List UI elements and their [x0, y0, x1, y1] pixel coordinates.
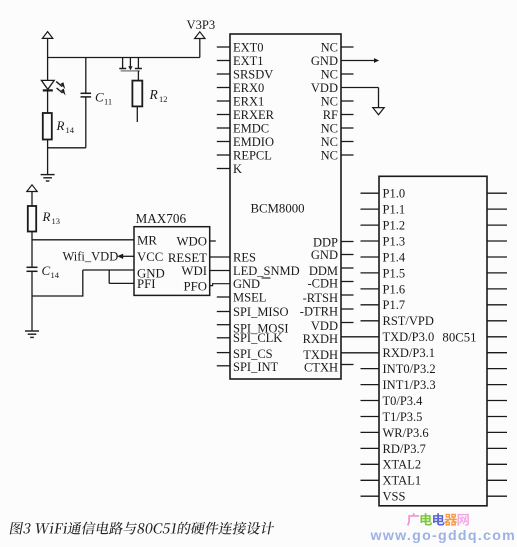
svg-text:RXD/P3.1: RXD/P3.1 [383, 346, 435, 360]
wire stub left [361, 272, 380, 274]
wire stub K [217, 168, 230, 170]
wire stub right [487, 256, 507, 258]
svg-text:80C51: 80C51 [442, 330, 476, 344]
wire stub left [361, 463, 380, 465]
wire [47, 38, 49, 80]
transistor Q1 [122, 58, 124, 69]
capacitor C14 [27, 266, 38, 268]
svg-text:C: C [42, 263, 51, 278]
wire stub [341, 127, 354, 129]
wire stub right [487, 288, 507, 290]
svg-text:EMDIO: EMDIO [233, 135, 274, 149]
svg-text:SRSDV: SRSDV [233, 67, 273, 81]
wire stub [341, 100, 354, 102]
svg-text:VCC: VCC [137, 250, 163, 264]
wire stub right [487, 304, 507, 306]
wire stub [217, 365, 230, 367]
svg-text:PFI: PFI [137, 277, 156, 291]
wire stub SRSDV [217, 73, 230, 75]
ground [41, 174, 55, 176]
svg-text:ERXER: ERXER [233, 108, 275, 122]
ground [25, 330, 39, 332]
wire stub right [487, 479, 507, 481]
wire stub left [361, 400, 380, 402]
svg-text:T1/P3.5: T1/P3.5 [383, 410, 423, 424]
wire stub ERXER [217, 114, 230, 116]
svg-text:WDI: WDI [181, 264, 207, 278]
wire stub left [361, 304, 380, 306]
svg-text:RST/VPD: RST/VPD [383, 314, 434, 328]
wire stub left [361, 240, 380, 242]
wire [341, 294, 354, 296]
svg-text:K: K [233, 162, 242, 176]
wire stub left [361, 479, 380, 481]
svg-text:RD/P3.7: RD/P3.7 [383, 442, 426, 456]
wire [341, 281, 354, 283]
svg-text:NC: NC [321, 94, 338, 108]
svg-text:-CDH: -CDH [307, 277, 338, 291]
svg-text:EXT0: EXT0 [233, 40, 264, 54]
wire stub right [487, 224, 507, 226]
svg-text:EXT1: EXT1 [233, 54, 264, 68]
wire WDI to LED_SNMD [210, 270, 230, 272]
resistor R14 [43, 113, 52, 140]
svg-text:MR: MR [137, 233, 157, 247]
wire [137, 71, 139, 81]
caption 图3 WiFi通信电路与80C51的硬件连接设计 [10, 522, 275, 535]
wire stub left [361, 208, 380, 210]
svg-text:EMDC: EMDC [233, 121, 269, 135]
wire stub [217, 352, 230, 354]
wire stub left [361, 288, 380, 290]
node VCC rail top [48, 57, 200, 59]
resistor R12 [132, 81, 142, 107]
wire junction to C11 [48, 147, 86, 149]
wire stub right [487, 336, 507, 338]
svg-text:VDD: VDD [311, 319, 338, 333]
wire [341, 267, 354, 269]
wire stub left [361, 431, 380, 433]
wire stub left [361, 224, 380, 226]
svg-text:P1.7: P1.7 [383, 298, 406, 312]
wire [31, 232, 33, 268]
op-amp U2 MAX706 box [134, 227, 210, 296]
svg-text:ERX0: ERX0 [233, 81, 264, 95]
svg-text:RES: RES [233, 250, 256, 264]
wire stub EMDIO [217, 141, 230, 143]
svg-text:13: 13 [52, 216, 61, 226]
svg-text:P1.4: P1.4 [383, 250, 406, 264]
wire stub right [487, 320, 507, 322]
svg-text:XTAL1: XTAL1 [383, 474, 422, 488]
wire [341, 254, 354, 256]
wire stub right [487, 495, 507, 497]
wire stub left [361, 256, 380, 258]
chip U1 BCM8000 box [230, 34, 341, 379]
wire stub left [361, 368, 380, 370]
wire stub left [361, 192, 380, 194]
wire [341, 241, 354, 243]
svg-text:LED_SNMD: LED_SNMD [233, 264, 300, 278]
svg-text:SPI_MISO: SPI_MISO [233, 305, 289, 319]
wire stub EXT1 [217, 60, 230, 62]
svg-text:CTXH: CTXH [304, 360, 338, 374]
svg-text:REPCL: REPCL [233, 148, 272, 162]
svg-text:T0/P3.4: T0/P3.4 [383, 394, 424, 408]
svg-text:ERX1: ERX1 [233, 94, 264, 108]
svg-text:14: 14 [66, 125, 75, 135]
wire stub right [487, 368, 507, 370]
svg-text:P1.1: P1.1 [383, 203, 406, 217]
wire [199, 39, 201, 58]
svg-text:GND: GND [311, 248, 338, 262]
wire stub [217, 296, 230, 298]
power arrow [195, 32, 205, 39]
svg-text:P1.5: P1.5 [383, 266, 406, 280]
wire stub ERX0 [217, 87, 230, 89]
svg-text:R: R [149, 87, 159, 102]
wire stub right [487, 416, 507, 418]
LED light arrow 1 [56, 82, 62, 87]
wire [341, 364, 354, 366]
wire PFO to GND [210, 284, 230, 286]
svg-text:WDO: WDO [176, 235, 207, 249]
svg-text:-RTSH: -RTSH [303, 291, 338, 305]
wire [47, 90, 49, 113]
resistor R13 [28, 206, 36, 232]
wire [341, 322, 354, 324]
svg-text:SPI_CLK: SPI_CLK [233, 331, 282, 345]
svg-text:TXD/P3.0: TXD/P3.0 [383, 330, 435, 344]
wire stub [217, 311, 230, 313]
svg-text:RESET: RESET [168, 251, 207, 265]
svg-text:INT1/P3.3: INT1/P3.3 [383, 378, 436, 392]
svg-text:P1.6: P1.6 [383, 282, 406, 296]
wire stub right [487, 447, 507, 449]
wire stub left [361, 320, 380, 322]
wire stub left [361, 416, 380, 418]
svg-text:SPI_INT: SPI_INT [233, 360, 279, 374]
svg-text:NC: NC [321, 121, 338, 135]
wire RESET to RES [210, 256, 230, 258]
svg-text:RF: RF [323, 108, 338, 122]
LED light arrow 2 [57, 88, 63, 93]
svg-text:R: R [56, 118, 65, 133]
svg-text:XTAL2: XTAL2 [383, 458, 422, 472]
watermark 广电电器网 [407, 513, 419, 526]
wire stub left [361, 384, 380, 386]
svg-text:VSS: VSS [383, 490, 406, 504]
wire stub REPCL [217, 154, 230, 156]
svg-text:P1.3: P1.3 [383, 234, 406, 248]
wire stub EMDC [217, 127, 230, 129]
svg-text:P1.0: P1.0 [383, 187, 406, 201]
wire [341, 308, 354, 310]
wire stub right [487, 192, 507, 194]
chip U3 80C51 box [379, 176, 487, 506]
wire stub right [487, 463, 507, 465]
svg-text:12: 12 [159, 94, 168, 104]
wire GND/PFI net [32, 295, 83, 297]
wire MR net [32, 239, 134, 241]
svg-text:MSEL: MSEL [233, 290, 266, 304]
wire stub [341, 141, 354, 143]
svg-text:14: 14 [51, 270, 60, 280]
wire stub right [487, 431, 507, 433]
wire stub ERX1 [217, 100, 230, 102]
wire stub right [487, 208, 507, 210]
wire stub right [487, 384, 507, 386]
wire stub [341, 46, 354, 48]
svg-text:MAX706: MAX706 [136, 211, 187, 226]
wire [47, 140, 49, 175]
wire [31, 271, 33, 331]
svg-text:BCM8000: BCM8000 [250, 201, 304, 215]
wire WDO stub [210, 240, 216, 242]
svg-text:NC: NC [321, 135, 338, 149]
svg-text:INT0/P3.2: INT0/P3.2 [383, 362, 436, 376]
wire stub EXT0 [217, 46, 230, 48]
svg-text:SPI_CS: SPI_CS [233, 347, 273, 361]
wire [136, 106, 138, 122]
wire stub left [361, 495, 380, 497]
wire stub left [361, 447, 380, 449]
svg-text:WR/P3.6: WR/P3.6 [383, 426, 429, 440]
svg-text:NC: NC [321, 148, 338, 162]
wire stub right [487, 400, 507, 402]
svg-text:PFO: PFO [184, 279, 207, 293]
svg-text:RXDH: RXDH [303, 332, 338, 346]
svg-text:P1.2: P1.2 [383, 219, 406, 233]
svg-text:11: 11 [104, 96, 112, 106]
wire stub [341, 114, 354, 116]
svg-text:GND: GND [233, 277, 260, 291]
svg-text:NC: NC [321, 40, 338, 54]
wire stub [217, 337, 230, 339]
wire stub [217, 324, 230, 326]
wire stub right [487, 240, 507, 242]
capacitor C11 [85, 58, 87, 94]
wire [341, 336, 379, 338]
wire stub [341, 73, 354, 75]
power arrow [27, 185, 37, 192]
svg-text:VDD: VDD [311, 81, 338, 95]
wire stub [341, 154, 354, 156]
svg-text:NC: NC [321, 67, 338, 81]
svg-text:GND: GND [311, 54, 338, 68]
wire stub right [487, 352, 507, 354]
wire stub right [487, 272, 507, 274]
wire VDD to gnd-arrow [341, 87, 379, 89]
svg-text:C: C [95, 90, 104, 105]
svg-text:-DTRH: -DTRH [300, 305, 338, 319]
power arrow [42, 32, 52, 39]
wire GND to arrow [341, 60, 374, 62]
svg-text:Wifi_VDD: Wifi_VDD [63, 249, 119, 263]
wire [341, 352, 379, 354]
svg-text:www.go-gddq.com: www.go-gddq.com [370, 528, 517, 544]
svg-text:R: R [42, 209, 51, 224]
wire [31, 192, 33, 207]
svg-text:V3P3: V3P3 [187, 18, 216, 32]
LED D1 [41, 80, 54, 89]
